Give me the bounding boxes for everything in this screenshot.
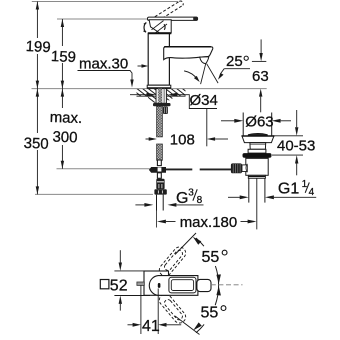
cartridge dot (158, 283, 161, 288)
lever pad outer (169, 277, 196, 293)
bowtie arrows on arc (216, 274, 221, 284)
label max.180 (157, 220, 257, 224)
swivel arc left (144, 23, 146, 33)
counter hatch left (137, 89, 157, 96)
dashed lever rotated up (157, 245, 188, 279)
label G1 1/4 (228, 195, 316, 199)
lever tip block (197, 279, 211, 291)
svg-text:159: 159 (51, 48, 77, 66)
dimension 40-53 (271, 110, 303, 175)
lower body (246, 158, 268, 176)
cross fitting (149, 160, 166, 173)
svg-text:41: 41 (142, 318, 160, 335)
svg-text:G1: G1 (278, 180, 299, 197)
lever wedge base (149, 20, 171, 33)
55deg top (175, 233, 196, 255)
body column (148, 33, 169, 85)
aerator drop (200, 57, 209, 64)
svg-text:350: 350 (23, 135, 49, 153)
svg-text:3: 3 (188, 187, 194, 198)
svg-text:55: 55 (201, 304, 219, 321)
plan centerline (211, 284, 243, 286)
Ø63 dimension bars (243, 113, 272, 137)
dim square52 (114, 250, 150, 310)
horseshoe washer (153, 103, 171, 106)
side block (163, 107, 168, 115)
dimension Ø34 (130, 93, 217, 109)
svg-text:max.180: max.180 (180, 214, 238, 231)
body square (144, 271, 169, 295)
neck (250, 143, 266, 150)
G3/8 fitting (154, 179, 166, 195)
lever raised (dashed) (155, 1, 183, 21)
knurled knob (231, 163, 242, 173)
small arrow pointing at faucet body (138, 64, 149, 68)
supply pipe (157, 195, 164, 211)
tailpipe shoulder (248, 175, 265, 178)
pop-up rod (166, 168, 192, 170)
55deg bottom (175, 316, 200, 335)
left stub (137, 282, 144, 285)
svg-text:G: G (176, 190, 188, 207)
svg-text:40-53: 40-53 (277, 138, 315, 155)
svg-text:4: 4 (309, 187, 315, 198)
dimension 159 (61, 19, 64, 89)
svg-text:52: 52 (110, 277, 128, 294)
spout (164, 47, 213, 60)
dim 41 (128, 285, 182, 334)
dimension 108 (146, 109, 229, 147)
dashed lever rotated down (157, 292, 188, 326)
label G3/8 (135, 203, 203, 207)
left stub neck (242, 165, 247, 172)
drain centerline (256, 178, 258, 229)
svg-text:max.: max. (49, 109, 82, 127)
lower neck (157, 173, 161, 179)
svg-text:Ø63: Ø63 (245, 113, 273, 130)
tailpipe (249, 178, 265, 202)
step block (248, 149, 266, 153)
pill body (149, 276, 198, 296)
svg-text:55: 55 (202, 249, 220, 266)
angle dimension arc (196, 238, 204, 246)
faucet base plate (147, 85, 171, 88)
svg-text:8: 8 (197, 195, 203, 206)
svg-text:63: 63 (252, 68, 269, 85)
extension line top (lever raised height) (32, 2, 267, 195)
swivel arc right (164, 24, 165, 30)
water stream lines (201, 64, 206, 84)
dimension 63 (260, 39, 262, 53)
dimension 199 (36, 2, 39, 89)
threaded shank (156, 89, 167, 104)
svg-text:Ø34: Ø34 (190, 92, 218, 109)
dimension 350 (36, 89, 39, 195)
svg-text:300: 300 (52, 129, 78, 147)
flange (242, 136, 274, 143)
svg-text:199: 199 (25, 38, 51, 56)
curved arrow stream (184, 71, 198, 80)
counter hatch right (167, 89, 186, 96)
svg-text:max.30: max.30 (79, 56, 128, 73)
lever bar (closed position) (148, 17, 198, 21)
svg-text:108: 108 (170, 132, 195, 149)
seal collar (243, 153, 272, 158)
flexible hose lower part (157, 144, 163, 160)
plug knob (248, 133, 267, 136)
flexible hose upper part (157, 106, 163, 137)
dimension max.300 (61, 89, 64, 169)
svg-text:25: 25 (226, 53, 243, 70)
